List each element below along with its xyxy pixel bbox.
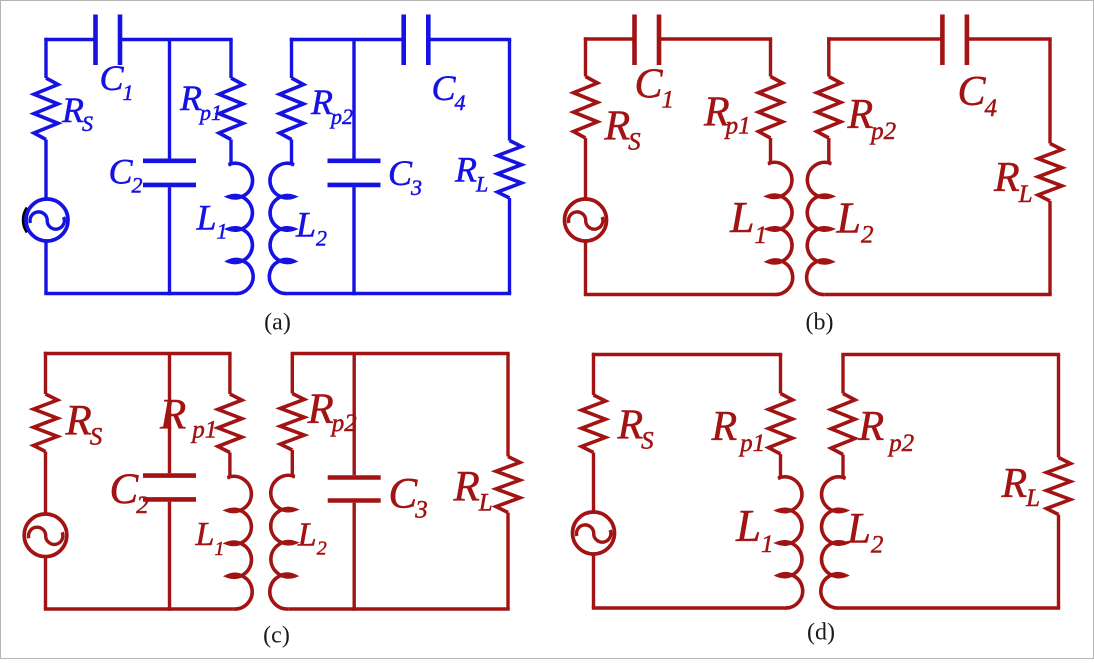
svg-text:L1: L1 — [195, 516, 225, 560]
svg-text:RL: RL — [454, 150, 488, 197]
inductor L2c — [270, 475, 295, 609]
wire d left upper — [592, 353, 595, 395]
wire d Rp2-L2 — [841, 455, 844, 479]
wire c bottom loop2 — [288, 607, 509, 610]
wire a Rp1-L1 link — [229, 140, 232, 165]
AC source VSb — [565, 199, 607, 241]
wire d bottom loop2 — [839, 606, 1060, 609]
svg-text:Rp2: Rp2 — [847, 92, 897, 145]
svg-text:C2: C2 — [109, 152, 143, 198]
svg-text:C1: C1 — [100, 58, 134, 105]
svg-text:RS: RS — [604, 104, 642, 156]
wire b Rp1 upper — [769, 39, 772, 77]
wire a left wire lower — [44, 241, 47, 294]
resistor Rp1 — [219, 78, 243, 140]
capacitor C3c — [328, 475, 381, 480]
wire a Rp2 branch upper — [290, 38, 293, 78]
wire b loop2 top right — [967, 37, 1052, 40]
wire a left wire upper — [44, 38, 47, 78]
svg-text:L1: L1 — [729, 193, 767, 249]
svg-text:RL: RL — [1001, 461, 1041, 512]
AC source VSc — [24, 514, 67, 557]
resistor RL — [498, 141, 522, 199]
wire a C2 branch upper — [168, 40, 171, 159]
wire b Rp1-L1 — [769, 138, 772, 164]
wire b Rp2-L2 — [827, 138, 830, 164]
wire b top left — [584, 37, 635, 40]
wire c left mid — [44, 452, 47, 515]
svg-text:C4: C4 — [958, 69, 998, 122]
capacitor C2c — [143, 473, 196, 478]
wire b top right — [659, 37, 772, 40]
resistor RSc — [34, 394, 58, 452]
wire b bottom loop1 — [584, 293, 775, 296]
source shadow — [24, 208, 28, 232]
wire d top loop2 — [841, 353, 1060, 356]
svg-text:C1: C1 — [635, 62, 675, 114]
wire a loop2 top right — [428, 38, 511, 41]
wire d Rp2 upper — [841, 355, 844, 394]
wire a RL wire upper — [508, 40, 511, 141]
wire b loop2 bottom — [825, 293, 1052, 296]
svg-text:Rp1: Rp1 — [711, 404, 766, 457]
resistor RLd — [1047, 458, 1071, 515]
svg-text:C2: C2 — [110, 466, 149, 519]
capacitor C3 — [328, 159, 381, 164]
wire d RL lower — [1057, 515, 1060, 609]
svg-text:RS: RS — [65, 398, 103, 451]
resistor Rp1b — [759, 77, 783, 139]
svg-text:Rp1: Rp1 — [159, 392, 217, 444]
svg-text:L1: L1 — [196, 198, 228, 244]
wire c C3 lower — [353, 503, 356, 611]
wire b loop2 top left — [827, 37, 942, 40]
inductor L2d — [821, 477, 846, 608]
resistor Rp1c — [218, 394, 242, 453]
capacitor C4b — [940, 15, 945, 66]
capacitor C2 — [143, 159, 196, 164]
svg-text:Rp2: Rp2 — [307, 386, 357, 437]
wire a left wire mid — [44, 140, 47, 200]
wire c Rp1-L1 — [228, 453, 231, 478]
wire d top loop1 — [592, 353, 782, 356]
svg-text:RL: RL — [993, 155, 1033, 208]
resistor RSb — [574, 77, 598, 139]
capacitor C1 — [93, 15, 98, 66]
wire c Rp2 upper — [291, 354, 294, 394]
inductor L1d — [778, 477, 803, 608]
wire c Rp1 upper — [228, 354, 231, 395]
wire b Rp2 upper — [827, 37, 830, 76]
wire b left upper — [584, 37, 587, 76]
wire a C3 branch lower — [352, 187, 355, 295]
AC source VS — [26, 199, 68, 241]
inductor L2 — [269, 163, 294, 293]
svg-text:Rp1: Rp1 — [703, 90, 751, 140]
resistor RS — [34, 78, 58, 140]
wire a C3 branch upper — [352, 40, 355, 159]
capacitor C1b — [632, 15, 637, 66]
resistor RSd — [582, 395, 606, 453]
svg-text:Rp1: Rp1 — [179, 78, 222, 125]
resistor RLb — [1038, 144, 1062, 202]
wire a loop2 top left — [290, 38, 404, 41]
wire b RL lower — [1048, 201, 1051, 295]
svg-text:(c): (c) — [263, 623, 290, 649]
wire d bottom loop1 — [592, 606, 785, 609]
wire a top wire right — [120, 38, 233, 41]
wire c C2 upper — [168, 354, 171, 474]
wire b RL upper — [1048, 39, 1051, 144]
wire a RL wire lower — [508, 198, 511, 294]
svg-text:RS: RS — [61, 90, 93, 136]
svg-text:Rp2: Rp2 — [858, 404, 915, 457]
wire d Rp1 upper — [779, 355, 782, 394]
wire c RL lower — [506, 513, 509, 610]
svg-text:C3: C3 — [388, 153, 422, 200]
svg-text:C3: C3 — [389, 471, 428, 524]
wire a bottom wire loop1 — [44, 292, 235, 295]
wire d left lower — [592, 554, 595, 608]
resistor RLc — [496, 457, 520, 513]
wire c left lower — [44, 556, 47, 609]
resistor Rp2b — [817, 77, 841, 139]
wire b left lower — [584, 241, 587, 295]
svg-text:RS: RS — [617, 403, 655, 455]
wire c bottom loop1 — [44, 607, 234, 610]
wire a Rp2-L2 link — [290, 140, 293, 165]
resistor Rp1d — [769, 394, 793, 455]
wire c top loop1 — [44, 352, 232, 355]
wire d Rp1-L1 — [779, 454, 782, 478]
svg-text:L1: L1 — [735, 501, 774, 558]
svg-text:L2: L2 — [297, 517, 327, 560]
resistor Rp2d — [831, 394, 855, 455]
wire c RL upper — [506, 354, 509, 457]
inductor L1 — [229, 163, 254, 293]
resistor Rp2 — [280, 78, 304, 140]
inductor L1c — [228, 476, 253, 609]
wire c C2 lower — [168, 502, 171, 611]
wire d RL upper — [1057, 355, 1060, 458]
svg-text:L2: L2 — [836, 194, 874, 249]
resistor Rp2c — [280, 394, 304, 451]
capacitor C4 — [401, 15, 406, 66]
inductor L1b — [768, 162, 793, 294]
AC source VSd — [573, 512, 615, 554]
inductor L2b — [807, 162, 832, 294]
wire a C2 branch lower — [168, 187, 171, 295]
wire b left mid — [584, 138, 587, 199]
svg-text:L2: L2 — [295, 205, 327, 251]
svg-text:C4: C4 — [432, 68, 466, 115]
wire c Rp2-L2 — [291, 450, 294, 477]
wire a loop2 bottom — [288, 292, 512, 295]
wire d left mid — [592, 453, 595, 513]
wire c C3 upper — [353, 354, 356, 476]
svg-text:(a): (a) — [264, 310, 291, 336]
wire a Rp1 branch upper — [229, 40, 232, 79]
svg-text:L2: L2 — [846, 506, 883, 559]
svg-text:Rp2: Rp2 — [310, 82, 353, 129]
svg-text:RL: RL — [453, 464, 493, 517]
svg-text:(d): (d) — [807, 620, 835, 646]
wire a top wire left — [44, 38, 95, 41]
wire c top loop2 — [291, 352, 510, 355]
wire c left upper — [44, 352, 47, 394]
svg-text:(b): (b) — [806, 310, 834, 336]
